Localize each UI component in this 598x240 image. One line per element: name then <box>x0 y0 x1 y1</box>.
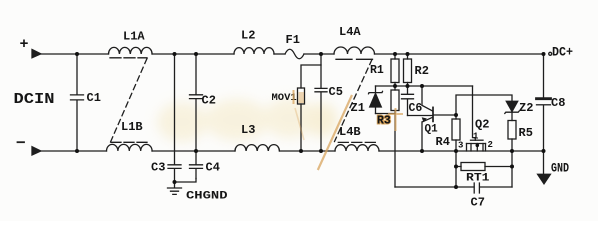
junction C1 top <box>75 52 79 56</box>
junction R1/R3 bus <box>393 84 397 88</box>
junction R2/C6 bus <box>406 84 410 88</box>
resistor R4 <box>455 115 457 119</box>
svg-text:R1: R1 <box>370 64 384 77</box>
varistor MOV1 <box>298 88 305 104</box>
transistor Q1 <box>422 86 433 111</box>
junction Q1 collector bus <box>420 84 424 88</box>
junction R1 top <box>393 52 397 56</box>
svg-text:DC+: DC+ <box>552 45 573 60</box>
wire top rail L4A to DC+ <box>375 53 544 55</box>
svg-text:1: 1 <box>473 132 479 142</box>
wire top rail L2 to F1 <box>274 53 285 55</box>
junction R4 bottom rail <box>454 149 458 153</box>
svg-text:RT1: RT1 <box>466 173 490 185</box>
varistor MOV1 branch wires <box>301 54 321 151</box>
inductor L1A <box>109 47 153 54</box>
svg-text:C3: C3 <box>151 161 165 175</box>
svg-text:Z2: Z2 <box>519 101 533 115</box>
node bus1 wire <box>376 85 473 87</box>
svg-text:L1B: L1B <box>121 120 143 134</box>
L4 coupling dashed line <box>335 60 373 142</box>
inductor L4A <box>334 47 375 54</box>
wire R4 node down legs <box>455 151 457 187</box>
watermark orange strokes <box>294 90 404 170</box>
svg-text:L2: L2 <box>241 29 255 43</box>
svg-text:+: + <box>20 36 29 53</box>
junction RT1 right <box>510 165 514 169</box>
wire R3 bottom down to C7 rail <box>394 114 396 188</box>
junction R5 bottom rail <box>510 149 514 153</box>
capacitor C5 <box>315 88 327 91</box>
wire across bottom to RT1/C7 left node <box>395 186 474 188</box>
terminal - arrow <box>32 147 41 155</box>
svg-text:C1: C1 <box>87 91 101 105</box>
junction C8 top <box>542 52 546 56</box>
junction Q1 emitter rail <box>420 149 424 153</box>
resistor R5 <box>508 121 516 140</box>
svg-text:C7: C7 <box>471 196 485 210</box>
capacitor C4 <box>190 165 203 169</box>
junction GND node <box>542 149 546 153</box>
junction CHGND node <box>173 180 177 184</box>
wire Z1 anode to R3 bottom <box>376 113 396 115</box>
L1 coupling dashed line <box>111 59 148 143</box>
L1A core dashed line <box>110 57 147 59</box>
ground CHGND <box>168 182 182 194</box>
capacitor C3 <box>168 165 181 169</box>
svg-text:R3: R3 <box>377 115 391 128</box>
mosfet Q2 gate wire <box>473 86 476 140</box>
wire bottom rail L3 to L4B <box>280 150 336 152</box>
svg-text:F1: F1 <box>286 33 300 47</box>
svg-text:L4B: L4B <box>339 125 361 139</box>
resistor R2 <box>407 54 409 59</box>
junction C5 bottom <box>319 149 323 153</box>
svg-text:L4A: L4A <box>339 25 361 39</box>
junction MOV1 bottom <box>299 149 303 153</box>
inductor L2 <box>234 48 274 54</box>
svg-text:R5: R5 <box>519 126 533 140</box>
junction Q2 body tap <box>476 144 480 148</box>
junction C7 left <box>454 185 458 189</box>
wire bottom rail left <box>41 150 107 152</box>
label minus sign <box>18 141 25 143</box>
svg-text:Q1: Q1 <box>425 124 439 136</box>
terminal + arrow <box>32 50 41 58</box>
inductor L3 <box>235 145 279 151</box>
svg-text:L1A: L1A <box>123 30 145 44</box>
wire bottom rail L4B to GND node <box>379 150 544 152</box>
svg-text:Z1: Z1 <box>351 101 365 115</box>
thermistor RT1 <box>461 163 485 171</box>
svg-text:2: 2 <box>488 140 493 150</box>
capacitor C5 wire <box>320 65 322 151</box>
svg-text:DCIN: DCIN <box>14 91 55 108</box>
wire bottom rail L1B to L3 <box>152 150 235 152</box>
capacitor C8 <box>543 54 545 98</box>
resistor R3 <box>394 86 396 90</box>
junction RT1 left <box>454 165 458 169</box>
junction C2 branch top <box>194 52 198 56</box>
wire C6 to Q1 base <box>408 115 433 117</box>
L4B core dashed line <box>338 141 378 143</box>
svg-text:Q2: Q2 <box>475 118 489 132</box>
capacitor C2 branch wire <box>195 54 197 179</box>
junction Q1 base / R4 top <box>454 113 458 117</box>
capacitor C6 <box>402 86 414 116</box>
svg-text:R2: R2 <box>415 64 429 78</box>
svg-text:C4: C4 <box>206 161 220 175</box>
L4A core dashed line <box>336 58 373 60</box>
svg-text:3: 3 <box>458 141 463 151</box>
L1B core dashed line <box>111 141 148 143</box>
wire C4 to CHGND node <box>175 179 197 183</box>
svg-text:CHGND: CHGND <box>186 191 228 203</box>
wire Q1 base to R4 node <box>434 114 456 116</box>
resistor R1 <box>394 54 396 59</box>
inductor L1B <box>107 144 153 151</box>
wire top rail left <box>41 53 109 55</box>
junction R2 top <box>406 52 410 56</box>
thermistor RT1 wires <box>456 166 512 168</box>
wire top rail F1 to L4A <box>304 53 334 55</box>
junction MOV1/C5 top <box>319 52 323 56</box>
svg-text:GND: GND <box>551 162 569 176</box>
svg-text:L3: L3 <box>241 123 255 137</box>
svg-text:C2: C2 <box>202 94 216 108</box>
capacitor C3 branch wire <box>174 54 176 182</box>
terminal DC+ <box>549 52 552 55</box>
zener Z2 <box>506 101 517 111</box>
junction C3 branch top <box>173 52 177 56</box>
svg-text:C5: C5 <box>329 85 343 99</box>
junction C4 rail <box>194 149 198 153</box>
wire top rail L1A to C3/C2 nodes to L2 <box>152 53 234 55</box>
inductor L4B <box>335 145 379 151</box>
junction C1 bottom <box>75 149 79 153</box>
capacitor C1 <box>71 54 84 151</box>
mosfet Q2 <box>471 139 484 141</box>
ground GND <box>543 151 545 174</box>
capacitor C2 <box>190 95 203 99</box>
capacitor C7 <box>474 183 512 193</box>
svg-text:C6: C6 <box>409 102 423 115</box>
svg-text:R4: R4 <box>436 135 450 149</box>
fuse F1 <box>285 49 304 59</box>
node bus2 wire <box>456 95 512 115</box>
zener Z1 <box>375 86 377 92</box>
svg-text:C8: C8 <box>551 96 565 110</box>
